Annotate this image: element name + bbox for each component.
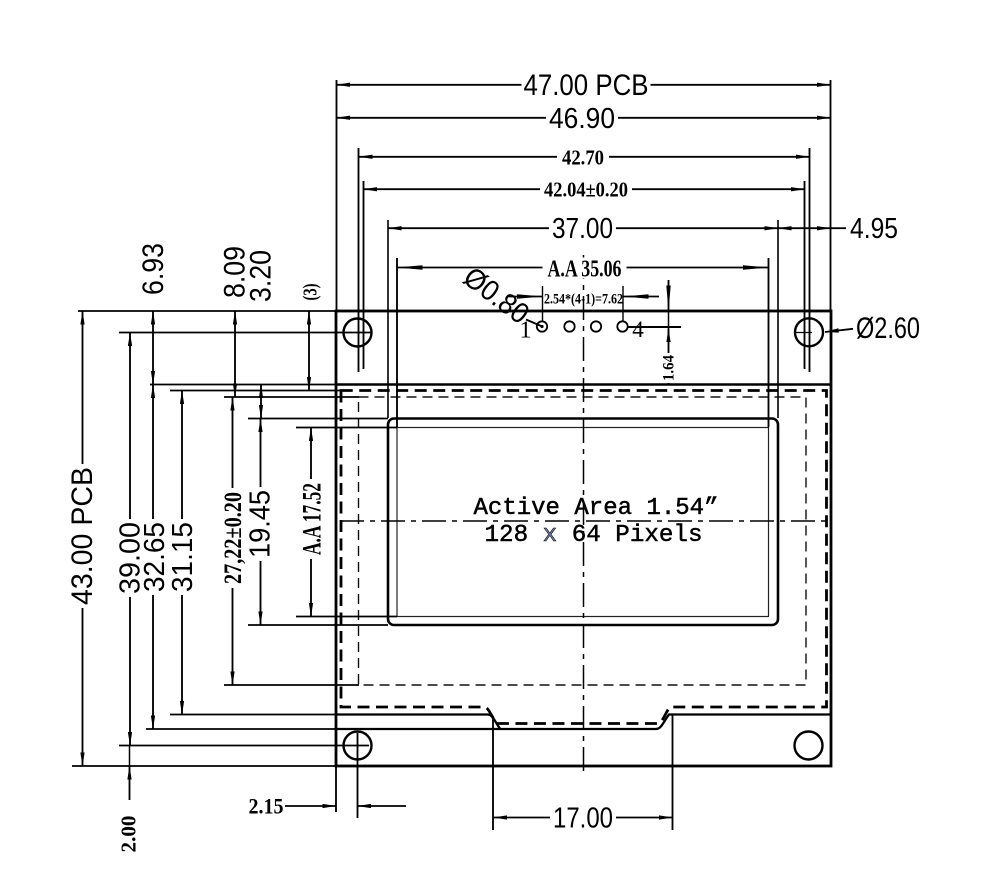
svg-text:1: 1 <box>520 317 532 343</box>
svg-text:27,22±0.20: 27,22±0.20 <box>220 492 247 584</box>
svg-text:46.90: 46.90 <box>549 103 615 135</box>
svg-text:42.70: 42.70 <box>562 146 604 170</box>
svg-text:2.00: 2.00 <box>117 816 141 853</box>
svg-text:37.00: 37.00 <box>552 213 613 245</box>
svg-text:43.00 PCB: 43.00 PCB <box>66 467 99 605</box>
svg-text:A.A 17.52: A.A 17.52 <box>298 483 327 555</box>
svg-text:4: 4 <box>632 317 644 342</box>
svg-text:2.15: 2.15 <box>249 794 284 819</box>
svg-text:47.00 PCB: 47.00 PCB <box>524 69 649 102</box>
svg-text:1.64: 1.64 <box>661 355 678 381</box>
svg-text:31.15: 31.15 <box>167 522 199 592</box>
svg-text:2.54*(4-1)=7.62: 2.54*(4-1)=7.62 <box>544 292 623 308</box>
svg-text:(3): (3) <box>299 284 321 301</box>
svg-text:6.93: 6.93 <box>137 243 170 295</box>
svg-text:42.04±0.20: 42.04±0.20 <box>544 177 628 201</box>
svg-text:Active Area 1.54”: Active Area 1.54” <box>474 495 719 522</box>
svg-text:Ø2.60: Ø2.60 <box>856 312 920 345</box>
svg-text:4.95: 4.95 <box>850 213 898 245</box>
svg-text:128 x 64 Pixels: 128 x 64 Pixels <box>485 522 703 549</box>
svg-text:A.A 35.06: A.A 35.06 <box>548 256 622 282</box>
svg-text:17.00: 17.00 <box>553 803 613 835</box>
svg-text:19.45: 19.45 <box>245 490 277 558</box>
svg-text:3.20: 3.20 <box>244 250 277 302</box>
